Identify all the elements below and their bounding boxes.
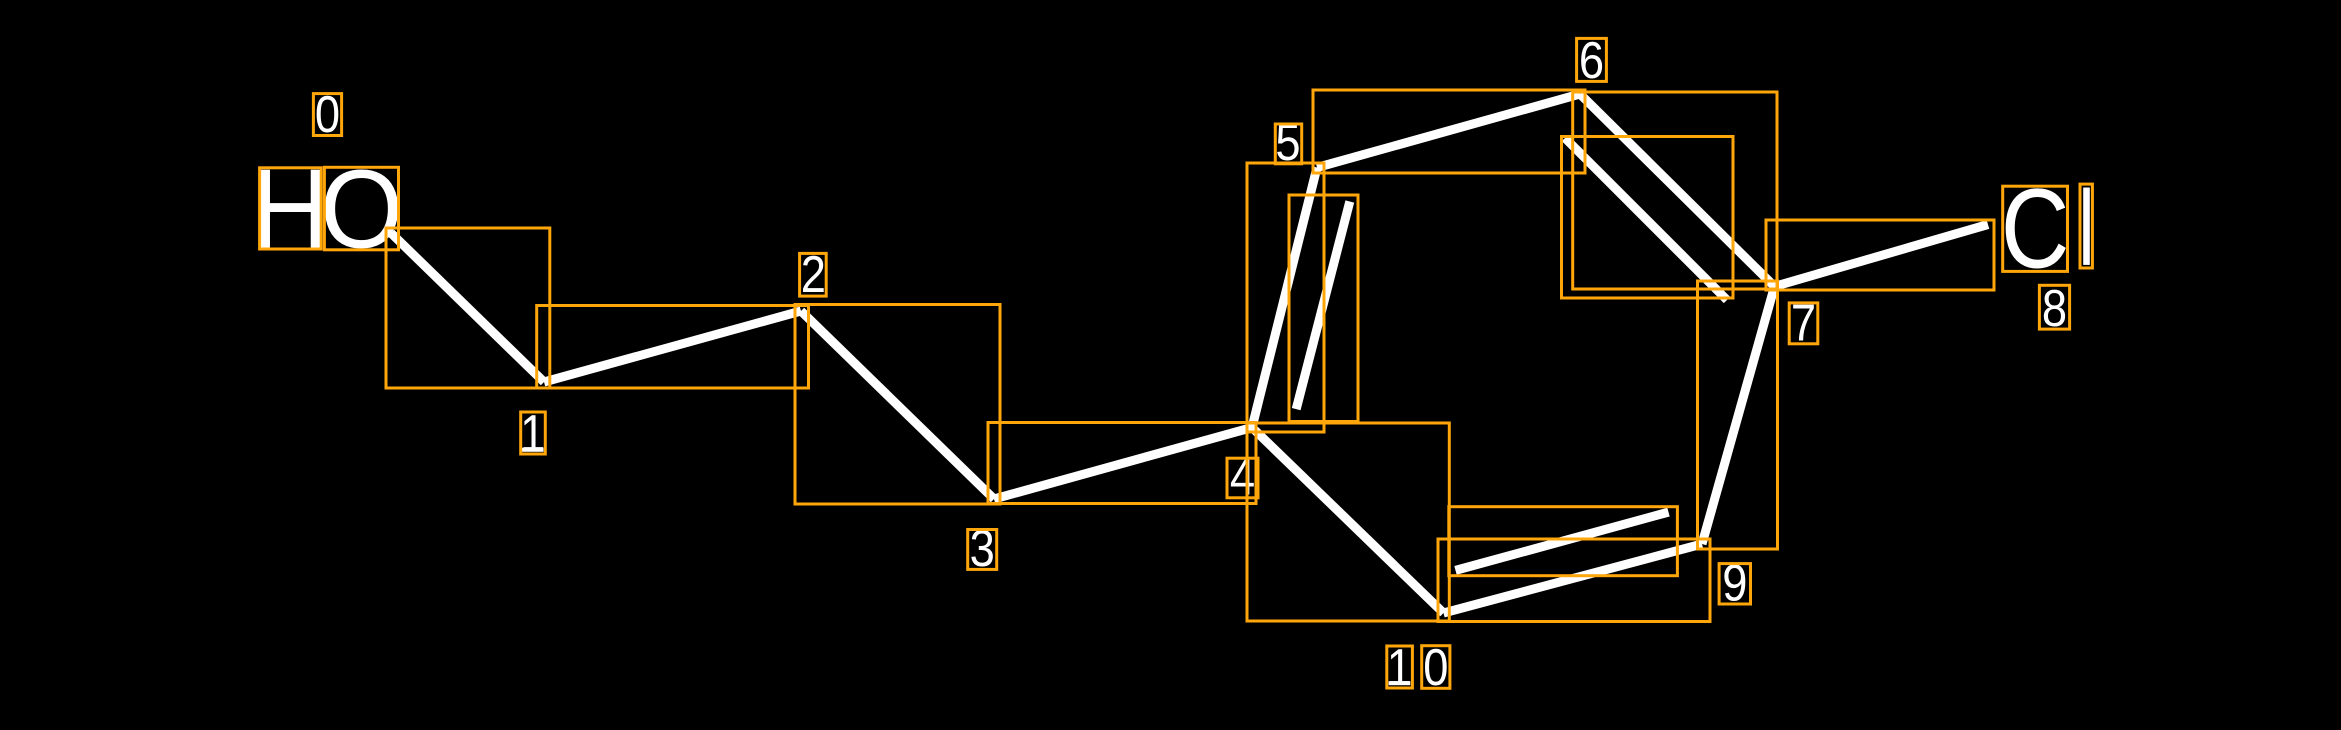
bond C7-Cl8: [1775, 225, 1989, 287]
atom index labels: [315, 32, 2067, 696]
box bond 6-7 inner: [1562, 137, 1734, 299]
bond C6-C7 inner: [1565, 138, 1727, 300]
box bond 4-5 outer: [1247, 163, 1324, 432]
bond C10-C4: [1252, 428, 1444, 614]
bond C7-C9: [1702, 287, 1775, 545]
box bond 9-10 outer: [1438, 539, 1710, 622]
box bond 3-4: [988, 423, 1256, 504]
box index 7: [1789, 303, 1818, 344]
box index 0: [313, 94, 341, 136]
box bond 1-2: [537, 306, 809, 389]
box index 8: [2039, 285, 2069, 329]
box index 9: [1719, 564, 1750, 604]
box glyph l: [2080, 184, 2092, 268]
box bond 5-6: [1313, 90, 1585, 173]
bond C4-C5 inner: [1296, 202, 1350, 410]
bond C6-C7 outer: [1580, 94, 1775, 287]
bond C9-C10 inner: [1456, 512, 1669, 570]
box index 2: [800, 253, 827, 296]
box index 10 digit 1: [1387, 646, 1413, 688]
bond C2-C3: [801, 311, 994, 499]
bond O0-C1: [391, 233, 544, 382]
box index 10 digit 0: [1422, 646, 1450, 689]
box bond 6-7 outer: [1573, 92, 1777, 289]
box index 5: [1275, 124, 1301, 164]
box bond 2-3: [795, 305, 1000, 505]
box glyph C: [2003, 186, 2068, 271]
box bond 7-8: [1766, 220, 1994, 290]
bond C4-C5 outer: [1252, 168, 1317, 428]
bond C3-C4: [994, 428, 1252, 500]
box glyph O: [324, 167, 398, 250]
glyph l of Cl: [2083, 188, 2090, 265]
box bond 10-4: [1247, 423, 1449, 621]
box bond 9-10 inner: [1449, 507, 1678, 576]
box index 4: [1227, 458, 1258, 498]
svg-text:H: H: [251, 146, 330, 273]
atom label Cl (atom 8): [2001, 167, 2070, 293]
box index 1: [521, 412, 546, 454]
box glyph H: [260, 168, 322, 249]
box bond 7-9: [1698, 281, 1778, 549]
box bond 0-1: [386, 228, 550, 388]
bond C9-C10 outer: [1444, 544, 1703, 613]
atom label HO (atom 0): [251, 146, 330, 273]
bond C1-C2: [544, 311, 801, 382]
box index 6: [1577, 38, 1607, 81]
bond C5-C6: [1317, 94, 1580, 168]
box index 3: [968, 530, 997, 570]
box bond 4-5 inner: [1289, 195, 1358, 422]
